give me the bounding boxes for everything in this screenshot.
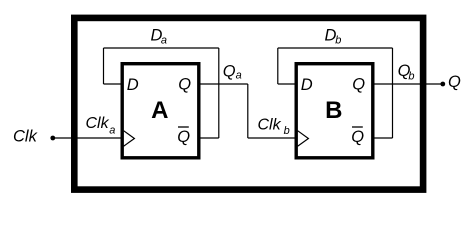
wire: node Qa vertical drop [247,84,249,138]
output terminal Q dot [440,82,445,87]
enclosure box [74,18,423,190]
svg-text:b: b [335,35,341,47]
wire: A Q output to node Qa [201,83,248,85]
wire: B clock input segment [248,137,295,139]
input terminal Clk dot [50,136,55,141]
flip-flop A clock triangle [124,131,135,147]
svg-text:Q: Q [177,128,190,146]
flip-flop B clock triangle [298,131,309,147]
svg-text:D: D [127,76,139,94]
svg-text:Q: Q [352,76,365,94]
wire: A D input segment [104,83,121,85]
svg-text:Q: Q [448,73,461,91]
flip-flop B [296,64,373,158]
svg-text:Q: Q [351,128,364,146]
svg-text:D: D [301,76,313,94]
wire: feedback Db left vertical [277,48,279,84]
svg-text:Q: Q [223,62,236,80]
wire: feedback Da left vertical [103,48,105,84]
wire: B Q-bar output segment [375,137,393,139]
wire: A Q-bar output segment [201,137,219,139]
svg-text:b: b [408,71,414,83]
wire: B Q output to terminal Q [375,83,443,85]
svg-text:Q: Q [178,76,191,94]
svg-text:Clk: Clk [13,127,38,145]
svg-text:Clk: Clk [86,115,110,132]
flip-flop A [122,64,199,158]
wire: feedback Db right vertical [392,48,394,138]
svg-text:b: b [284,125,290,137]
wire: feedback Da right vertical [218,48,220,138]
wire: feedback Db top horizontal [278,47,393,49]
svg-text:a: a [109,124,115,136]
svg-text:B: B [325,97,342,124]
svg-text:A: A [151,97,168,124]
wire: feedback Da top horizontal [104,47,219,49]
wire: B D input segment [278,83,295,85]
svg-text:a: a [161,35,167,47]
svg-text:Clk: Clk [258,116,282,133]
wire: Clk input to flip-flop A clock [53,137,121,139]
svg-text:a: a [236,70,242,82]
